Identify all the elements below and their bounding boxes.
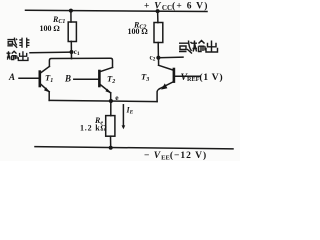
svg-text:VREF(1 V): VREF(1 V) [181,72,224,83]
label CJK chu (OR char3) [206,41,218,53]
transistor T2 [98,67,112,101]
node e [109,99,113,103]
wire node e to RE [110,101,112,116]
svg-text:B: B [64,74,71,84]
node junction rail-RC1 [69,9,73,13]
node junction RE-bottom rail [109,146,113,150]
wire RC2 to node c2 [157,43,159,58]
wire OR output [158,56,183,59]
node c1 [70,50,74,54]
transistor T3 [157,58,200,102]
label CJK chu (NOR line2 char2) [18,51,28,60]
resistor RC2 [154,23,163,43]
svg-text:100 Ω: 100 Ω [40,24,60,33]
wire RC1 to node c1 [70,41,72,58]
wire RE to bottom rail [110,136,112,148]
transistor T1 [19,66,50,100]
svg-text:+ VCC(+ 6 V): + VCC(+ 6 V) [144,1,209,13]
label CJK huo (OR char1) [179,41,192,54]
svg-text:IE: IE [126,106,134,116]
label CJK huo (NOR line1 char1) [7,38,218,61]
wire rail to RC1 [70,11,72,22]
wire base B to T2 [74,78,99,80]
svg-text:T3: T3 [141,72,149,83]
node junction rail-RC2 [156,9,160,13]
wire NOR output [30,51,72,54]
node c2 [156,56,160,60]
wire emitter bus [49,100,157,101]
resistor RE [106,116,115,137]
resistor RC1 [68,22,76,42]
label CJK fei (NOR line1 char2) [19,38,29,48]
svg-text:1.2 kΩ: 1.2 kΩ [80,124,107,133]
svg-text:100 Ω: 100 Ω [128,27,148,36]
svg-text:− VEE(−12 V): − VEE(−12 V) [144,150,207,161]
label CJK shu (OR char2) [192,41,205,52]
label +VCC(+6V) [144,1,209,13]
label CJK shu (NOR line2 char1) [7,51,17,59]
svg-text:c1: c1 [74,48,80,57]
svg-text:T2: T2 [107,74,115,85]
svg-text:A: A [8,72,15,82]
current arrow IE [122,105,126,130]
wire rail to RC2 [157,11,159,23]
svg-text:T1: T1 [45,73,53,84]
svg-text:c2: c2 [150,53,156,62]
wire top VCC rail [26,10,208,11]
wire bottom VEE rail [35,147,233,149]
wire collector bus T1-T2 [49,58,112,67]
